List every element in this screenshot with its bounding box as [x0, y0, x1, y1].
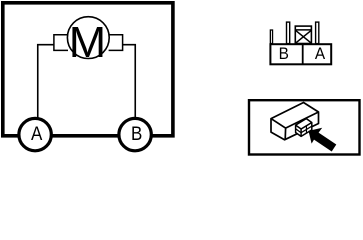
svg-text:A: A	[31, 123, 43, 144]
svg-text:A: A	[315, 45, 326, 62]
svg-text:B: B	[131, 123, 142, 144]
svg-text:B: B	[279, 45, 289, 62]
svg-text:M: M	[69, 18, 106, 67]
